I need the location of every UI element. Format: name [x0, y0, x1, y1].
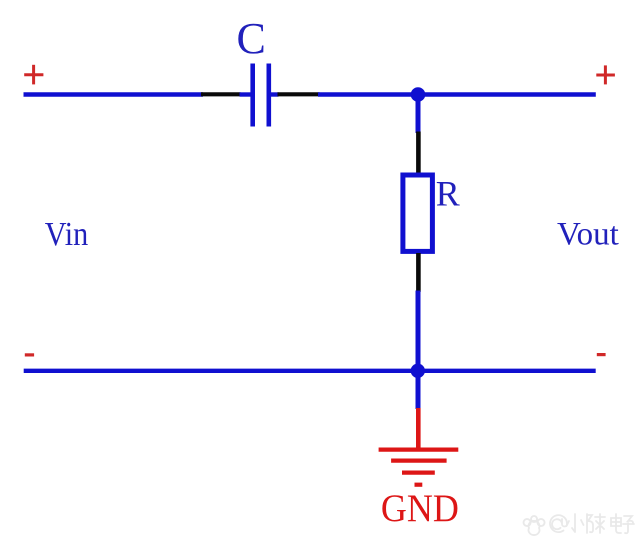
wire: top rail blue left segment	[24, 92, 204, 96]
minus mark right (-)	[597, 353, 606, 356]
wire: blue segment from resistor to bottom node	[416, 291, 421, 371]
wire: top black segment right of capacitor	[278, 92, 320, 96]
svg-text:Vin: Vin	[45, 216, 89, 253]
svg-text:GND: GND	[381, 487, 459, 530]
wire: blue stub below bottom node	[416, 371, 421, 409]
minus mark left (-)	[25, 353, 34, 356]
wire: blue stub from capacitor right plate	[271, 92, 279, 96]
wire: top rail blue right segment	[318, 92, 596, 96]
svg-text:Vout: Vout	[557, 217, 619, 253]
wire: top black segment left of capacitor	[201, 92, 241, 96]
plus mark right (+)	[596, 65, 615, 84]
wire: blue stub into capacitor left plate	[240, 92, 252, 96]
wire: black segment from node to resistor top	[416, 132, 421, 175]
ground symbol bars	[379, 450, 459, 485]
wire: black segment below resistor	[416, 253, 421, 292]
plus mark left (+)	[24, 65, 43, 85]
node junction top	[411, 87, 426, 102]
wire: bottom rail blue	[24, 369, 596, 373]
node junction bottom	[411, 364, 425, 378]
wire: red segment to ground	[416, 408, 421, 450]
svg-text:C: C	[237, 14, 266, 63]
watermark	[524, 514, 634, 535]
wire: blue stub below top node	[416, 95, 421, 134]
svg-text:R: R	[436, 174, 460, 214]
capacitor C plates	[253, 64, 269, 127]
resistor R body	[403, 175, 433, 251]
